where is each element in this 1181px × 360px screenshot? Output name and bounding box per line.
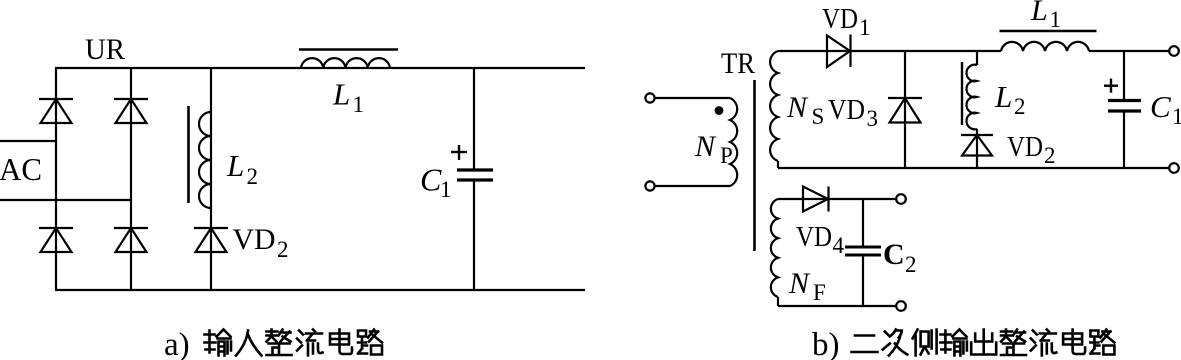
C1 (right) polarity + [1104,79,1118,93]
wire: VD3 branch [904,51,906,168]
wire: NF top rail [778,198,896,200]
caption a char 整 [267,330,292,356]
svg-text:1: 1 [859,15,871,40]
svg-text:1: 1 [440,177,452,202]
inductor L1 (left) core bar [299,48,398,51]
caption b char 整 [1001,330,1026,356]
inductor L1 (right) core bar [1000,30,1097,33]
capacitor C1 (left) plates [457,170,493,180]
svg-text:VD: VD [796,221,832,253]
inductor L1 (right) coil [1001,42,1089,51]
wire: L2 to bottom rail [976,129,978,168]
wire: primary top lead [655,97,730,99]
caption a char 电 [330,330,352,355]
diode bridge D3 (bottom-left) [39,228,73,252]
caption a char 入 [236,331,262,356]
svg-text:C: C [1150,89,1171,124]
primary terminal (top) [645,93,654,102]
svg-text:1: 1 [1172,104,1181,129]
svg-text:C: C [883,238,905,271]
diode VD3 [888,98,922,123]
svg-text:2: 2 [905,252,917,277]
diode bridge D2 (top-right) [114,99,148,123]
wire: AC input line 2 [0,199,131,201]
svg-text:1: 1 [353,92,365,117]
wire: NF bottom stub [777,297,779,306]
diode VD2 (left circuit) [194,228,228,252]
aux terminal (top) [896,194,906,204]
svg-text:N: N [788,267,811,300]
svg-text:L: L [1030,0,1048,27]
wire: primary bottom lead [655,185,730,187]
caption b char 输 [940,330,967,356]
svg-text:P: P [720,143,733,168]
caption b char 二 [852,336,878,353]
svg-text:VD: VD [233,223,276,256]
svg-text:S: S [812,104,825,129]
svg-text:2: 2 [1044,143,1056,168]
capacitor C2 plates [845,247,881,255]
inductor L2 (right) core bar [961,62,963,125]
diode bridge D1 (top-left) [39,99,73,123]
svg-text:VD: VD [828,94,865,126]
wire: C1 (right) branch upper [1123,51,1125,101]
output terminal (bottom right) [1169,163,1179,173]
svg-text:AC: AC [0,151,42,187]
svg-text:UR: UR [85,33,125,66]
wire: C2 branch lower [862,255,864,306]
caption b char 流 [1031,330,1057,356]
svg-text:F: F [813,280,826,305]
wire: left circuit top rail [55,67,585,69]
transformer winding NF [771,199,778,297]
caption a char 路 [358,330,382,355]
svg-text:N: N [786,91,809,124]
wire: NF bottom rail [778,305,896,307]
svg-text:VD: VD [822,4,858,35]
diode VD1 [827,35,851,68]
wire: C1 branch lower [473,180,475,290]
wire: L2/VD2 branch [210,68,212,290]
transformer primary winding NP [730,98,737,186]
svg-text:N: N [694,130,717,163]
diode bridge D4 (bottom-right) [114,228,148,252]
caption b char 路 [1090,330,1114,355]
wire: secondary top rail [778,50,1001,52]
wire: C1 branch upper [473,68,475,170]
wire: bridge left leg [55,68,57,290]
diode VD4 [803,187,829,212]
svg-text:a): a) [164,327,190,360]
wire: NS bottom stub [777,161,779,168]
wire: secondary bottom rail [778,167,1169,169]
svg-text:L: L [226,148,244,183]
caption a char 流 [297,330,323,356]
svg-text:2: 2 [247,164,259,189]
inductor L2 (right) coil [966,65,977,130]
inductor L2 (left) core bar [187,106,190,203]
diode VD2 (right) [961,135,993,156]
caption b char 出 [971,330,996,355]
wire: secondary top rail right of L1 [1089,50,1169,52]
caption a char 输 [205,330,232,356]
caption b char 电 [1063,330,1085,355]
svg-text:L: L [332,77,350,112]
svg-text:L: L [994,79,1012,114]
svg-text:C: C [420,162,442,198]
caption b char 侧 [913,330,937,356]
svg-text:3: 3 [867,106,879,131]
svg-text:4: 4 [833,233,845,258]
transformer core [753,80,756,251]
inductor L1 (left) coil [301,58,390,68]
svg-text:b): b) [812,327,840,360]
caption b char 次 [883,330,908,356]
C1 (left) polarity + [451,145,467,160]
primary terminal (bottom) [645,181,654,190]
wire: L2 branch stub [976,51,978,65]
capacitor C1 (right) plates [1108,101,1141,112]
output terminal (top right) [1169,46,1179,56]
wire: C1 (right) branch lower [1123,111,1125,168]
svg-text:VD: VD [1007,131,1043,163]
svg-text:1: 1 [1050,7,1062,32]
inductor L2 (left) coil [199,112,211,208]
wire: C2 branch upper [862,199,864,247]
wire: left circuit bottom rail [55,289,585,291]
transformer secondary winding NS [770,51,778,161]
svg-text:TR: TR [721,47,755,80]
svg-text:2: 2 [1014,94,1026,119]
wire: bridge right leg [130,68,132,290]
svg-text:2: 2 [277,237,289,262]
polarity dot [715,106,724,115]
aux terminal (bottom) [896,301,906,311]
wire: AC input line 1 [0,140,56,142]
